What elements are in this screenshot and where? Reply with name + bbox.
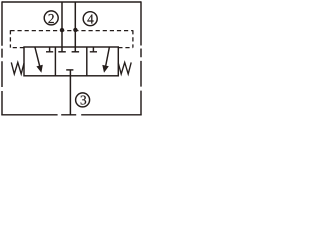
port label circle 3 [76,93,90,107]
valve body outline [24,47,118,76]
transition envelope dashed right [132,30,134,47]
blocked port T left box [46,47,53,52]
transition envelope dashed left [9,30,11,47]
transition envelope dashed connector left [10,47,24,49]
blocked port T bottom (port 3 stub bar) [66,69,73,71]
spring right [118,62,131,74]
junction dot port 4 [73,28,77,32]
svg-text:2: 2 [48,11,55,26]
blocked port T center-right [72,51,80,53]
port label circle 4 [83,12,97,26]
arrowhead left box [36,65,42,73]
port label circle 2 [44,11,58,25]
wire port 4 line [74,2,76,52]
blocked port T center-left [58,51,66,53]
outer envelope bottom edge [1,114,141,116]
junction dot port 2 [60,28,64,32]
blocked port T right box [90,47,97,52]
valve body divider left [54,47,56,76]
svg-text:3: 3 [80,93,87,108]
transition envelope dashed top [10,30,132,32]
arrow left box flow path [35,47,40,67]
svg-text:4: 4 [87,11,94,26]
arrow right box flow path [106,47,110,66]
outer envelope right edge [140,1,142,115]
outer envelope top edge [2,1,141,3]
valve body divider right [86,47,88,76]
wire port 2 line [61,2,63,52]
transition envelope dashed connector right [118,47,133,49]
wire port 3 line [69,70,71,115]
spring left [11,62,24,74]
arrowhead right box [102,65,109,73]
outer envelope left edge [1,1,3,115]
